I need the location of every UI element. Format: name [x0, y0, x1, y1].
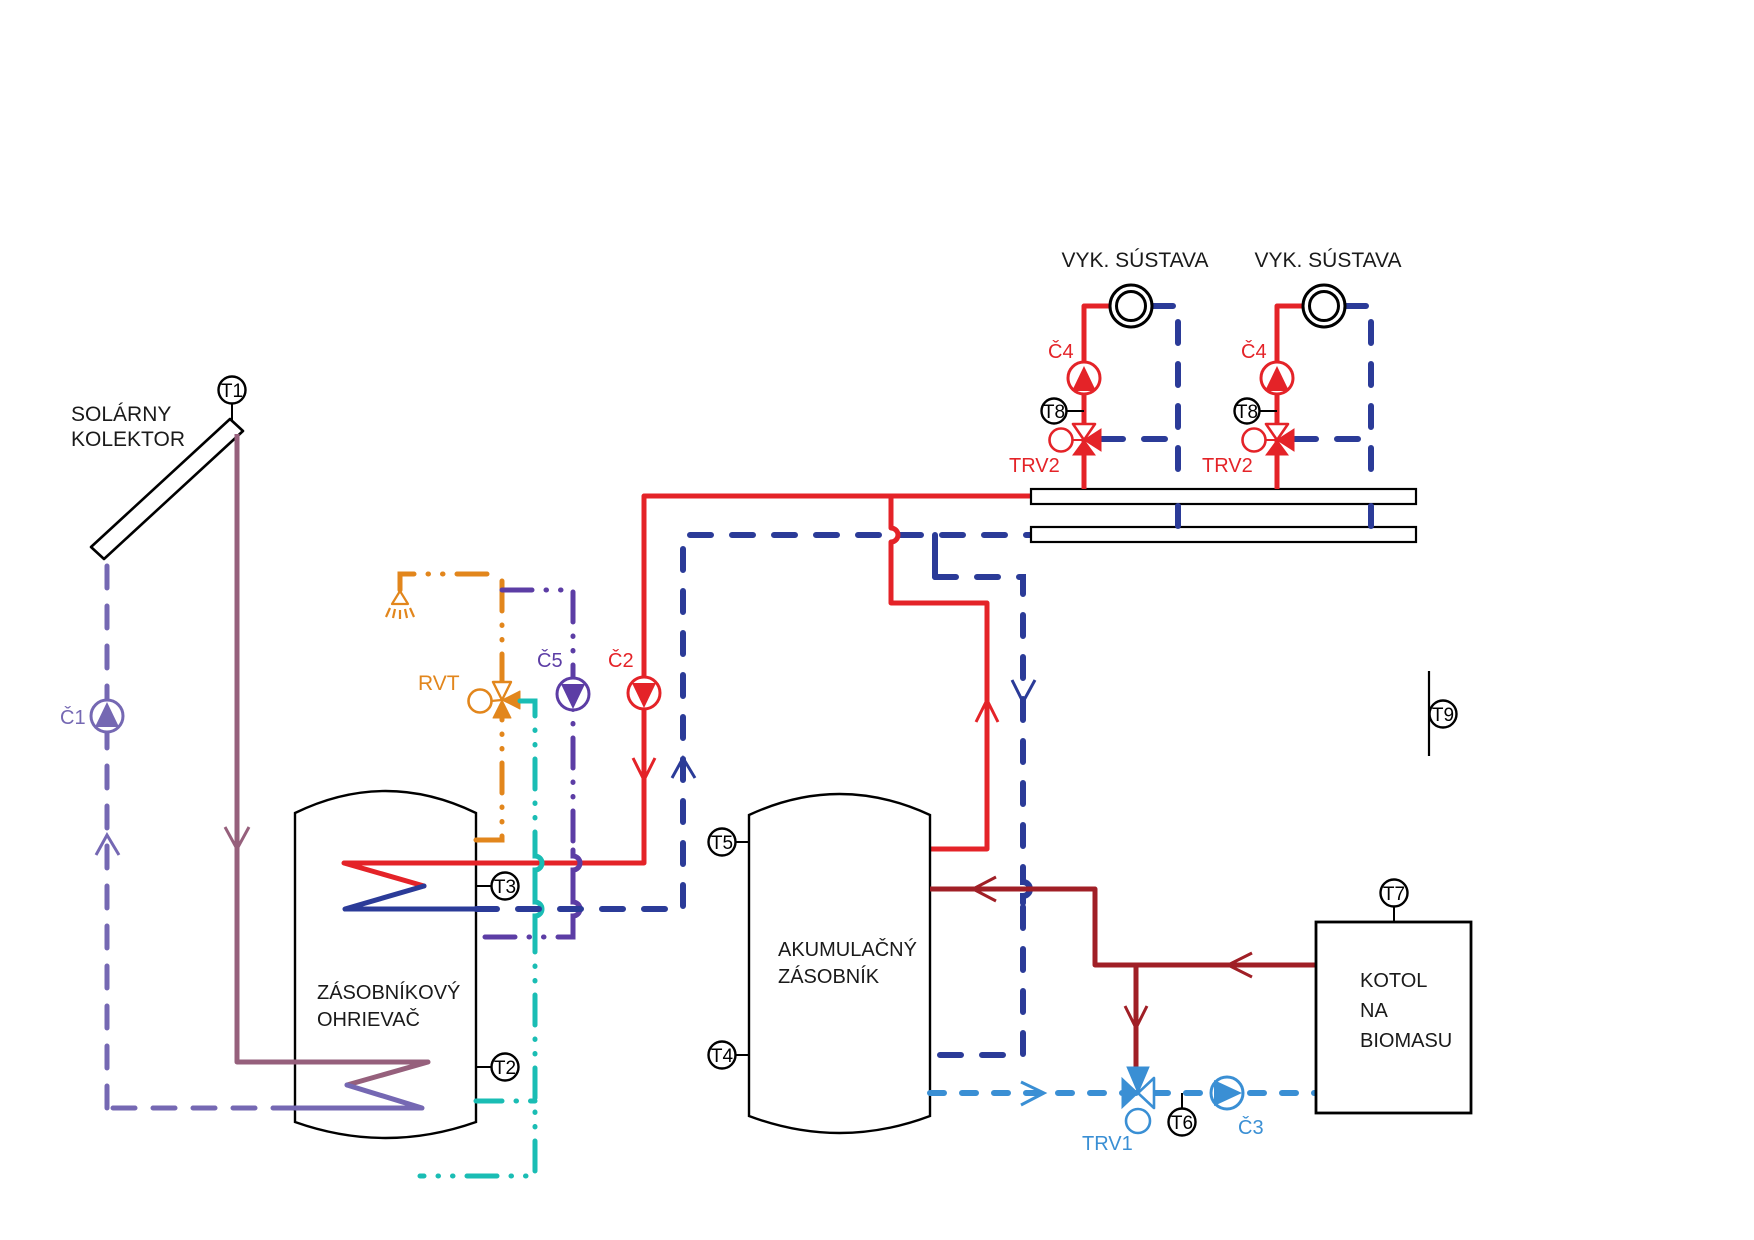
- circuit 2: valve TRV2 (3-way, red): [1202, 424, 1294, 477]
- svg-text:RVT: RVT: [418, 672, 460, 695]
- svg-text:SOLÁRNY: SOLÁRNY: [71, 403, 171, 426]
- circuit 1: wire return dash between manifolds: [1175, 506, 1181, 526]
- svg-text:Č5: Č5: [537, 649, 563, 672]
- svg-text:Č1: Č1: [60, 706, 86, 729]
- svg-text:TRV2: TRV2: [1009, 455, 1060, 477]
- svg-text:Č4: Č4: [1048, 340, 1074, 363]
- svg-text:VYK. SÚSTAVA: VYK. SÚSTAVA: [1254, 249, 1401, 272]
- svg-text:T8: T8: [1236, 402, 1258, 423]
- manifold supply (upper distributor): [1031, 489, 1416, 504]
- sensor T6: [1169, 1093, 1196, 1136]
- boiler KOTOL NA BIOMASU: [1316, 922, 1471, 1113]
- svg-text:T7: T7: [1383, 884, 1405, 905]
- svg-text:Č3: Č3: [1238, 1116, 1264, 1139]
- flow arrow loading supply (down): [633, 758, 655, 780]
- flow arrow boiler supply (left, near boiler): [1228, 953, 1252, 977]
- flow arrow TRV1 branch (down): [1125, 1006, 1147, 1028]
- svg-text:OHRIEVAČ: OHRIEVAČ: [317, 1008, 420, 1031]
- wire cold water down to mains stub (cyan dash-dot-dot): [420, 922, 535, 1176]
- circuit 1: valve TRV2 (3-way, red): [1009, 424, 1101, 477]
- wire solar return riser (dashed light purple): [105, 549, 110, 1108]
- svg-text:Č2: Č2: [608, 649, 634, 672]
- wire solar supply (mauve riser): [235, 434, 240, 1062]
- wire DHW circulation (violet dash-dot-dot) shower tee to pump: [502, 590, 573, 850]
- wire heating return (dark blue dashed): tank coil to manifold: [476, 535, 1031, 909]
- pump Č1: [60, 700, 123, 732]
- blue return jumps over boiler supply: [1023, 875, 1030, 903]
- circuit 2: pump Č4: [1241, 340, 1293, 394]
- label ZÁSOBNÍKOVÝ OHRIEVAČ: [317, 981, 460, 1031]
- circuit 2: radiator: [1303, 285, 1345, 327]
- wire DHW hot riser (orange dash-dot-dot) tank to RVT: [476, 716, 502, 840]
- flow arrow accumulator return (down): [1012, 680, 1035, 702]
- pump Č2: [608, 649, 660, 709]
- pump Č3: [1211, 1077, 1264, 1139]
- svg-text:KOLEKTOR: KOLEKTOR: [71, 428, 185, 451]
- circuit 2: wire supply (red) manifold to radiator: [1277, 306, 1303, 489]
- circuit 1: wire return (dark blue dashed) radiator down: [1152, 306, 1178, 489]
- pump Č5: [537, 649, 589, 710]
- svg-text:BIOMASU: BIOMASU: [1360, 1030, 1452, 1052]
- flow arrow boiler return (right): [1021, 1082, 1044, 1105]
- svg-text:ZÁSOBNÍKOVÝ: ZÁSOBNÍKOVÝ: [317, 981, 460, 1004]
- wire cold water to RVT (cyan dash-dot-dot): [520, 701, 535, 850]
- sensor T9 on standalone probe: [1429, 671, 1457, 756]
- svg-text:TRV1: TRV1: [1082, 1133, 1133, 1155]
- flow arrow boiler supply (left, near tank): [973, 877, 996, 901]
- svg-text:AKUMULAČNÝ: AKUMULAČNÝ: [778, 938, 917, 961]
- flow arrow solar supply (down): [225, 827, 249, 849]
- svg-text:NA: NA: [1360, 1000, 1388, 1022]
- wire boiler return (light blue dashed): accumulator to boiler: [930, 1090, 1316, 1096]
- circuit 1: pump Č4: [1048, 340, 1100, 394]
- tank ZÁSOBNÍKOVÝ OHRIEVAČ body: [295, 791, 476, 1138]
- svg-text:T6: T6: [1171, 1113, 1193, 1134]
- DHW coil upper cold leg (dark blue): [345, 886, 476, 909]
- circuit 1: wire bypass (dark blue dashed) valve to return: [1102, 436, 1175, 442]
- flow arrow accumulator hot (up): [976, 700, 998, 722]
- svg-text:T9: T9: [1432, 705, 1454, 726]
- wire RVT to shower tee (orange dash-dot-dot): [500, 574, 505, 684]
- tank AKUMULAČNÝ ZÁSOBNÍK body: [749, 794, 930, 1133]
- svg-text:T1: T1: [221, 381, 243, 402]
- shower head symbol: [386, 591, 414, 619]
- sensor T1: [219, 377, 246, 425]
- circuit 1: radiator: [1110, 285, 1152, 327]
- solar collector panel: [91, 419, 243, 559]
- manifold return (lower distributor): [1031, 527, 1416, 542]
- solar coil redraw over tank: cold (light purple): [295, 1085, 422, 1108]
- flow arrow solar return (up): [96, 835, 119, 855]
- sensor T4: [709, 1042, 750, 1069]
- svg-text:VYK. SÚSTAVA: VYK. SÚSTAVA: [1061, 249, 1208, 272]
- svg-text:T2: T2: [494, 1058, 516, 1079]
- DHW coil upper hot leg (red): [344, 863, 644, 886]
- svg-text:T3: T3: [494, 877, 516, 898]
- wire solar return bottom (dashed light purple): [107, 1106, 295, 1111]
- sensor T7: [1381, 880, 1408, 923]
- wire accumulator return branch (dark blue dashed) with jump over boiler supply: [932, 535, 938, 577]
- circuit 2: sensor T8: [1235, 399, 1278, 424]
- circuit 2: wire return dash between manifolds: [1368, 506, 1374, 526]
- flow arrow heating return (up): [672, 758, 695, 778]
- wire boiler supply branch to TRV1 (dark red): [1134, 965, 1139, 1078]
- sensor T2: [476, 1054, 519, 1081]
- violet jumps over coil pipes: [573, 850, 580, 922]
- sensor T5: [709, 829, 750, 856]
- label AKUMULAČNÝ ZÁSOBNÍK: [778, 938, 917, 988]
- wire accumulator return into tank (dark blue dashed): [930, 907, 1023, 1055]
- valve TRV1 (3-way, light blue): [1082, 1067, 1154, 1155]
- wire DHW circulation into tank (violet dash-dot-dot): [476, 922, 573, 937]
- circuit 2: wire bypass (dark blue dashed) valve to return: [1295, 436, 1368, 442]
- svg-text:TRV2: TRV2: [1202, 455, 1253, 477]
- sensor T3: [476, 873, 519, 900]
- svg-text:T4: T4: [711, 1046, 734, 1067]
- wire DHW loading supply (red): tank coil to manifold via Č2: [644, 496, 1031, 863]
- wire accumulator hot branch (red) with jump over return: [891, 496, 987, 849]
- wire cold water into tank (cyan dash-dot-dot): [476, 1099, 535, 1104]
- valve RVT (3-way thermostatic mixing): [418, 672, 520, 718]
- svg-text:ZÁSOBNÍK: ZÁSOBNÍK: [778, 965, 880, 988]
- solar coil redraw over tank: hot (mauve): [237, 1062, 428, 1085]
- circuit 2: wire return (dark blue dashed) radiator down: [1345, 306, 1371, 489]
- svg-text:T5: T5: [711, 833, 733, 854]
- wire boiler supply (dark red): boiler to accumulator: [930, 889, 1316, 965]
- wire DHW mixed water to shower (orange dash-dot-dot): [400, 574, 501, 590]
- label SOLÁRNY KOLEKTOR: [71, 403, 185, 451]
- cyan jumps over coil pipes: [535, 850, 542, 922]
- circuit 1: sensor T8: [1042, 399, 1085, 424]
- svg-text:KOTOL: KOTOL: [1360, 970, 1427, 992]
- svg-text:T8: T8: [1043, 402, 1065, 423]
- svg-text:Č4: Č4: [1241, 340, 1267, 363]
- circuit 1: wire supply (red) manifold to radiator: [1084, 306, 1110, 489]
